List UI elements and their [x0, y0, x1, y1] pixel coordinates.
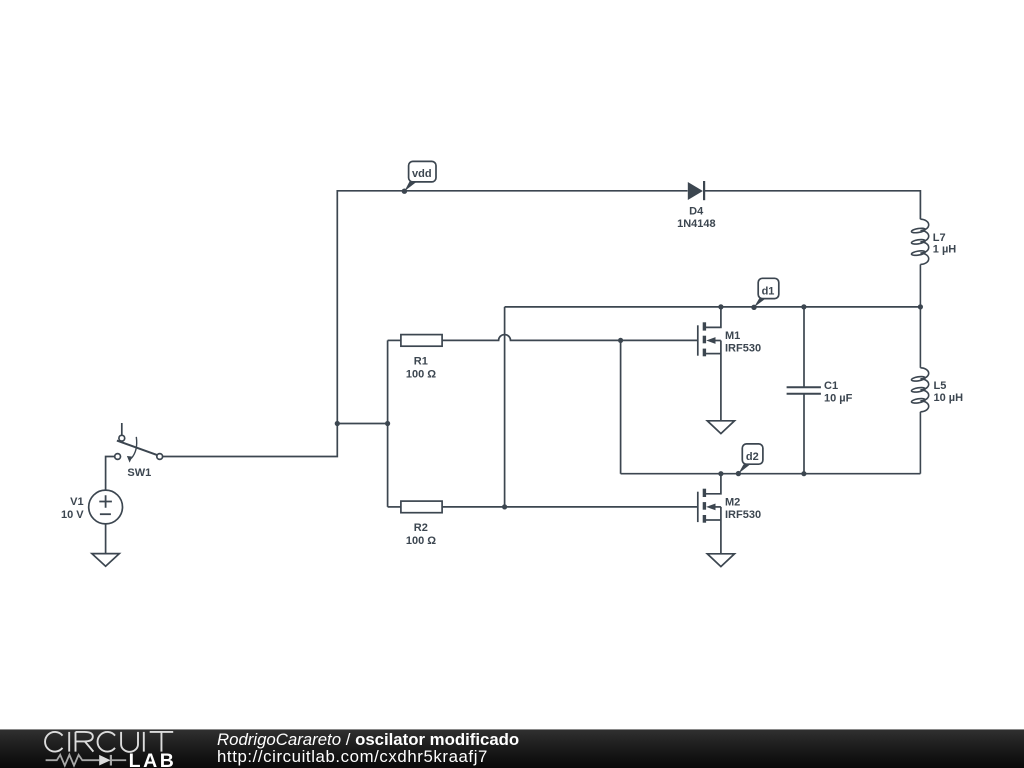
resistor R1 [388, 335, 443, 347]
svg-text:IRF530: IRF530 [725, 509, 761, 521]
wire cross-couple M1 gate to d2 net [620, 340, 622, 473]
junction C1 top on d1 [801, 304, 806, 309]
svg-text:d2: d2 [746, 451, 759, 463]
svg-text:R1: R1 [414, 355, 428, 367]
svg-text:V1: V1 [70, 496, 83, 508]
node label vdd [402, 161, 436, 194]
junction L7/L5 on d1 [918, 304, 923, 309]
ground below V1 [92, 554, 119, 567]
junction C1 bottom on d2 [801, 471, 806, 476]
inductor L7 [911, 219, 929, 307]
wire V1 minus to ground [105, 524, 107, 554]
junction R2 cross-couple [502, 504, 507, 509]
svg-text:M2: M2 [725, 497, 740, 509]
wire D4 cathode to L7 top [704, 191, 920, 219]
junction vdd tap [335, 421, 340, 426]
wire R1 to M1 gate (with hop) [442, 335, 698, 341]
wire cross-couple d1 to M2 gate [504, 307, 506, 507]
junction R1/R2 vertical [385, 421, 390, 426]
junction M1 drain on d1 [718, 304, 723, 309]
svg-text:D4: D4 [689, 206, 704, 218]
svg-text:R2: R2 [414, 522, 428, 534]
svg-text:d1: d1 [762, 285, 775, 297]
voltage source V1 [89, 490, 123, 524]
svg-text:vdd: vdd [412, 168, 432, 180]
svg-text:L5: L5 [934, 380, 947, 392]
svg-text:10 V: 10 V [61, 509, 84, 521]
switch SW1 [115, 423, 163, 463]
CircuitLab logo wordmark [45, 732, 173, 752]
svg-text:C1: C1 [824, 380, 838, 392]
svg-text:100 Ω: 100 Ω [406, 368, 436, 380]
svg-text:SW1: SW1 [127, 467, 151, 479]
svg-text:LAB: LAB [129, 750, 177, 768]
wire d1 net horizontal [505, 306, 921, 308]
wire feed tap to R1/R2 [337, 423, 387, 425]
svg-text:10 µH: 10 µH [934, 392, 964, 404]
svg-text:IRF530: IRF530 [725, 343, 761, 355]
capacitor C1 [787, 307, 821, 474]
svg-text:L7: L7 [933, 232, 946, 244]
svg-text:1 µH: 1 µH [933, 244, 957, 256]
svg-text:10 µF: 10 µF [824, 392, 853, 404]
logo resistor+diode squiggle [46, 755, 127, 766]
svg-text:100 Ω: 100 Ω [406, 535, 436, 547]
wire switch to D4 anode (vdd net left) [163, 191, 688, 457]
node label d2 [736, 444, 763, 476]
wire d2 net horizontal [621, 473, 921, 475]
ground below M1 [707, 421, 734, 434]
wire R2 to M2 gate [442, 506, 698, 508]
diode D4 [688, 181, 704, 200]
transistor M2 IRF530 [698, 474, 721, 554]
junction R1 cross-couple [618, 338, 623, 343]
junction M2 drain on d2 [718, 471, 723, 476]
svg-text:M1: M1 [725, 330, 740, 342]
resistor R2 [388, 501, 443, 513]
wire V1 plus to switch left terminal [106, 457, 115, 491]
node label d1 [751, 278, 779, 310]
transistor M1 IRF530 [698, 307, 721, 421]
ground below M2 [707, 554, 734, 567]
svg-text:1N4148: 1N4148 [677, 218, 716, 230]
inductor L5 [911, 307, 929, 474]
wire R1/R2 left vertical [387, 340, 389, 507]
